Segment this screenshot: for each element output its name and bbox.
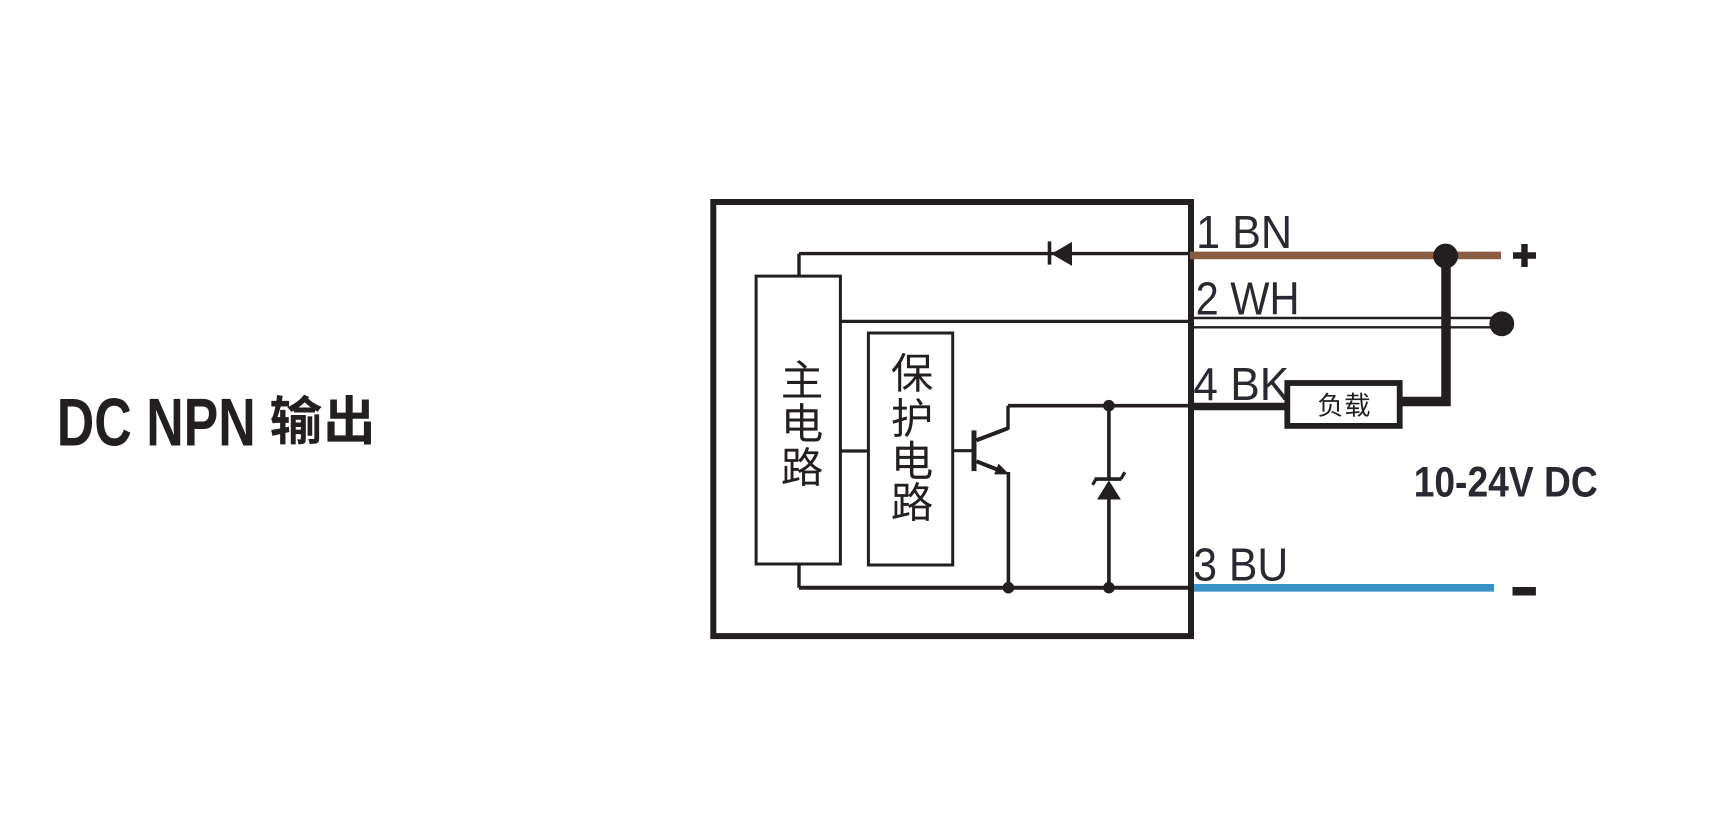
wire: blue BU wire <box>1194 584 1494 592</box>
junction node on BN wire <box>1433 244 1458 269</box>
wire: main circuit to protection circuit link <box>841 449 869 452</box>
wire: black BK output wire <box>1188 403 1285 411</box>
junction: zener to pin4 line <box>1103 400 1115 412</box>
junction: emitter to bottom line <box>1003 582 1015 594</box>
node: WH wire end dot <box>1489 311 1514 336</box>
diode D1 (reverse polarity protection) on pin1 line <box>1048 241 1072 266</box>
main circuit block 主电路 <box>756 276 840 564</box>
wire: pin 1 internal line <box>799 252 1191 255</box>
svg-text:4 BK: 4 BK <box>1193 358 1289 410</box>
svg-text:DC NPN: DC NPN <box>57 384 256 460</box>
sensor body outline box <box>713 202 1191 636</box>
wire: brown BN supply wire <box>1190 252 1501 260</box>
terminal - <box>1513 587 1536 596</box>
wire: white WH signal wire (double line) <box>1194 318 1496 327</box>
svg-text:10-24V DC: 10-24V DC <box>1414 459 1598 507</box>
transistor Q1 (NPN output) <box>972 406 1010 588</box>
wire: pin 3 internal bottom line <box>799 586 1191 590</box>
svg-text:2 WH: 2 WH <box>1196 273 1300 325</box>
wire: collector line to pin 4 (BK) <box>1008 404 1191 408</box>
terminal + <box>1513 244 1536 267</box>
load box 负载 <box>1287 383 1399 426</box>
zener diode ZD1 <box>1093 406 1125 588</box>
wire: base wire from protection circuit <box>953 449 972 452</box>
svg-text:1 BN: 1 BN <box>1196 206 1292 258</box>
wire: thick black wire from load to + node <box>1402 256 1446 402</box>
svg-text:3 BU: 3 BU <box>1193 538 1288 590</box>
wire: pin 2 internal line (WH) <box>841 320 1191 323</box>
wire: riser from main circuit bottom <box>797 566 800 588</box>
wire: riser from main circuit top to pin1 line <box>797 254 800 276</box>
junction: zener to bottom line <box>1103 582 1115 594</box>
protection circuit block 保护电路 <box>868 333 952 565</box>
